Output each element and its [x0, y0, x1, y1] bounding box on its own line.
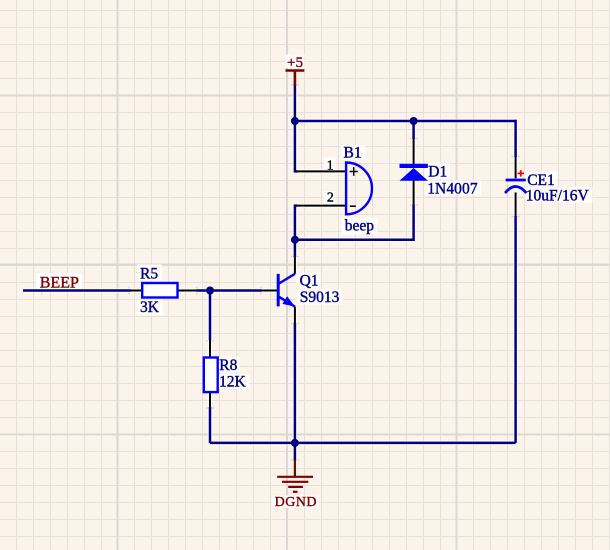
svg-text:R8: R8	[219, 357, 237, 374]
wire node down to R8 top	[209, 291, 212, 341]
buzzer B1 minus mark	[350, 205, 356, 207]
pin hotspot crosses	[38, 81, 520, 464]
capacitor CE1 top plate	[506, 179, 526, 182]
svg-text:12K: 12K	[219, 374, 247, 391]
wire mid node to Q1 collector	[294, 240, 297, 257]
svg-text:CE1: CE1	[527, 172, 555, 189]
pin Q1 base	[261, 290, 278, 292]
svg-text:beep: beep	[345, 218, 375, 235]
pin R8 bottom	[209, 392, 211, 409]
wire top rail corner down to CE1	[514, 120, 517, 157]
svg-text:Q1: Q1	[300, 272, 319, 289]
node collector junction	[291, 236, 299, 244]
wire ground stub	[294, 443, 297, 461]
node R5/R8/base junction	[206, 287, 214, 295]
buzzer B1 plus mark	[350, 167, 358, 176]
pin B1 1	[297, 170, 346, 172]
svg-text:S9013: S9013	[300, 289, 340, 306]
pin CE1 bottom	[515, 193, 517, 217]
svg-text:3K: 3K	[140, 299, 160, 316]
pin D1 anode	[413, 181, 415, 206]
pin Q1 emitter	[294, 307, 296, 324]
svg-text:+5: +5	[287, 55, 303, 71]
pin R5 right	[178, 290, 198, 292]
ground DGND symbol	[277, 460, 313, 492]
buzzer B1 body	[346, 163, 372, 215]
pin R5 left	[130, 290, 142, 292]
svg-text:BEEP: BEEP	[40, 275, 79, 292]
transistor Q1 base bar	[277, 274, 280, 307]
wire top rail	[295, 120, 516, 123]
wire CE1 bottom down to bottom rail	[514, 216, 517, 443]
capacitor CE1 curved plate	[505, 187, 526, 194]
text background halos	[36, 55, 593, 509]
pin Q1 collector	[294, 257, 296, 274]
svg-text:1: 1	[327, 157, 334, 172]
wire B1 pin 2 down to mid node	[295, 206, 297, 240]
svg-text:B1: B1	[344, 144, 362, 161]
transistor Q1 collector diagonal	[278, 274, 295, 284]
svg-text:2: 2	[327, 189, 334, 204]
resistor R8 body	[204, 358, 218, 393]
wire bottom rail	[210, 442, 516, 445]
wire D1 top from junction	[412, 121, 415, 139]
wire mid rail to D1	[295, 205, 414, 240]
wire Q1 emitter down to bottom rail	[294, 324, 297, 443]
svg-text:R5: R5	[140, 266, 158, 283]
power +5 bar	[286, 71, 305, 86]
capacitor CE1 plus mark	[518, 170, 524, 176]
transistor Q1 emitter arrow	[282, 296, 295, 306]
svg-text:1N4007: 1N4007	[427, 180, 478, 197]
wire rail down to B1 pin 1	[295, 121, 297, 171]
diode D1 triangle	[400, 168, 428, 181]
transistor Q1 emitter diagonal	[278, 296, 295, 306]
wire R5 to Q1 base via node	[197, 289, 262, 292]
node top-left junction	[291, 117, 299, 125]
node D1 top junction	[410, 117, 418, 125]
svg-text:DGND: DGND	[275, 495, 317, 510]
wire BEEP net from left to R5	[23, 289, 131, 292]
resistor R5 body	[142, 283, 177, 298]
pin D1 cathode	[413, 138, 415, 164]
wire +5 stub to top rail	[294, 85, 297, 122]
wire R8 bottom down	[209, 407, 212, 443]
pin R8 top	[209, 339, 211, 358]
wire white halo underlay	[23, 85, 516, 461]
pin B1 2	[297, 205, 346, 207]
diode D1 cathode bar	[400, 164, 428, 168]
pin CE1 top	[515, 157, 517, 179]
node ground junction	[291, 439, 299, 447]
svg-text:10uF/16V: 10uF/16V	[526, 187, 590, 204]
svg-text:D1: D1	[428, 163, 447, 180]
